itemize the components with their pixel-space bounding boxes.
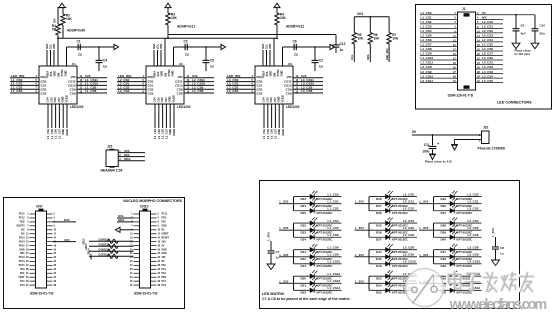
svg-text:1u: 1u bbox=[185, 53, 189, 57]
svg-text:L_3V3: L_3V3 bbox=[280, 279, 289, 283]
svg-text:GND: GND bbox=[19, 249, 24, 251]
svg-text:VLED: VLED bbox=[172, 129, 176, 136]
ground bbox=[512, 43, 520, 49]
svg-text:CS6: CS6 bbox=[53, 97, 57, 103]
svg-text:NC: NC bbox=[21, 233, 25, 235]
svg-text:L1_CS4: L1_CS4 bbox=[421, 29, 432, 33]
svg-text:L3_CS6: L3_CS6 bbox=[468, 233, 479, 237]
svg-text:PC13: PC13 bbox=[19, 257, 25, 259]
wire pin bbox=[30, 237, 36, 239]
svg-text:U1: U1 bbox=[72, 62, 76, 66]
svg-text:L1_CS5: L1_CS5 bbox=[328, 226, 339, 230]
svg-text:PH1: PH1 bbox=[20, 273, 25, 275]
wire bbox=[62, 25, 64, 38]
svg-text:C12: C12 bbox=[340, 42, 346, 46]
svg-text:PC2: PC2 bbox=[20, 281, 25, 283]
wire L2_CS0 bbox=[476, 23, 504, 25]
svg-text:NC: NC bbox=[21, 230, 25, 232]
wire L2_CS10 bbox=[420, 77, 458, 79]
capacitor C9 bbox=[515, 15, 517, 29]
svg-text:L1_CS10: L1_CS10 bbox=[328, 260, 341, 264]
svg-text:L2_CS2: L2_CS2 bbox=[403, 207, 414, 211]
LED D31 bbox=[434, 210, 482, 212]
svg-text:SSW-116-01-T-D: SSW-116-01-T-D bbox=[448, 94, 474, 98]
svg-text:Place close to J10: Place close to J10 bbox=[425, 160, 452, 164]
wire L3_CS11 bbox=[293, 81, 323, 83]
svg-text:L1_CS2: L1_CS2 bbox=[421, 20, 432, 24]
svg-text:L_3V3: L_3V3 bbox=[355, 226, 364, 230]
LED D51 bbox=[294, 282, 342, 284]
svg-text:L2_CS9: L2_CS9 bbox=[421, 70, 432, 74]
wire L1_CS9 bbox=[420, 54, 458, 56]
capacitor C2 bbox=[314, 47, 316, 60]
svg-text:L1_CS4: L1_CS4 bbox=[46, 128, 50, 138]
svg-text:L3_CS4: L3_CS4 bbox=[468, 219, 479, 223]
svg-text:KPT-2012EC: KPT-2012EC bbox=[317, 238, 333, 242]
wire pin bbox=[134, 253, 140, 255]
wire L3_CS9 bbox=[293, 88, 323, 90]
wire 5V0 bbox=[184, 77, 214, 79]
wire L_3V3 feed bbox=[419, 282, 434, 284]
wire L1_CS8 bbox=[420, 50, 458, 52]
svg-text:PA1: PA1 bbox=[162, 268, 167, 271]
svg-text:L1_CS8: L1_CS8 bbox=[421, 47, 432, 51]
svg-text:N/C: N/C bbox=[482, 16, 488, 20]
svg-text:PC10: PC10 bbox=[19, 214, 25, 216]
wire 5V0 branch bbox=[174, 46, 222, 48]
wire LED group bus bbox=[368, 250, 370, 264]
wire pin bbox=[30, 213, 36, 215]
svg-text:D35: D35 bbox=[376, 223, 382, 227]
wire L1_CS1 bbox=[10, 84, 39, 86]
svg-text:GND: GND bbox=[61, 96, 65, 102]
wire GND bbox=[278, 104, 280, 128]
wire L3_CS5 bbox=[476, 82, 504, 84]
svg-text:PC1: PC1 bbox=[162, 281, 167, 283]
svg-text:D48: D48 bbox=[441, 257, 447, 261]
svg-text:SCL: SCL bbox=[350, 54, 354, 60]
svg-text:L2_CS10: L2_CS10 bbox=[421, 74, 434, 78]
wire L_3V3 feed bbox=[355, 282, 370, 284]
svg-text:CS4: CS4 bbox=[46, 97, 50, 103]
svg-text:L_3V3: L_3V3 bbox=[420, 253, 429, 257]
svg-text:L_3V3: L_3V3 bbox=[280, 253, 289, 257]
wire pin bbox=[30, 225, 36, 227]
svg-text:VDD: VDD bbox=[269, 71, 273, 77]
svg-text:CS7: CS7 bbox=[57, 97, 61, 103]
svg-text:D31: D31 bbox=[441, 211, 447, 215]
svg-text:L_3V3: L_3V3 bbox=[355, 253, 364, 257]
svg-text:L1_CS7: L1_CS7 bbox=[421, 43, 432, 47]
svg-text:10K: 10K bbox=[66, 17, 73, 21]
wire bbox=[164, 38, 166, 66]
svg-text:GND: GND bbox=[61, 129, 65, 135]
wire E5V bbox=[53, 221, 77, 223]
wire 3V3 bbox=[53, 241, 77, 243]
svg-text:L1_CS5: L1_CS5 bbox=[50, 128, 54, 138]
LED D58 bbox=[434, 289, 482, 291]
wire L3_CS10 bbox=[293, 84, 323, 86]
svg-text:L2_CS0: L2_CS0 bbox=[403, 192, 414, 196]
wire L1_CS3 bbox=[420, 27, 458, 29]
wire SDA bbox=[118, 160, 145, 162]
box LED CONNECTORS bbox=[416, 5, 552, 110]
IC U3 LED1202 bbox=[255, 66, 293, 104]
wire N/C bbox=[476, 18, 504, 20]
svg-text:3V3: 3V3 bbox=[357, 12, 363, 16]
wire bbox=[266, 50, 268, 66]
svg-text:D52: D52 bbox=[301, 291, 307, 295]
svg-text:C3: C3 bbox=[184, 40, 188, 44]
svg-text:5V0: 5V0 bbox=[54, 18, 57, 23]
svg-text:D49: D49 bbox=[441, 264, 447, 268]
wire L2_CS9 bbox=[184, 88, 214, 90]
wire L1_CS11 bbox=[77, 81, 107, 83]
svg-text:L_3V3: L_3V3 bbox=[280, 226, 289, 230]
svg-text:PH0: PH0 bbox=[20, 269, 25, 271]
svg-text:PA15: PA15 bbox=[19, 244, 25, 247]
svg-text:GND: GND bbox=[280, 70, 284, 76]
IC U1 LED1202 bbox=[39, 66, 77, 104]
svg-text:KPT-2012EC: KPT-2012EC bbox=[392, 264, 408, 268]
wire bbox=[46, 50, 48, 66]
svg-text:PC3: PC3 bbox=[20, 285, 25, 287]
wire pin bbox=[134, 241, 140, 243]
wire L3_CS2 bbox=[476, 68, 504, 70]
svg-text:L1_CS6: L1_CS6 bbox=[54, 128, 58, 138]
svg-text:L1_CS13: L1_CS13 bbox=[328, 279, 341, 283]
svg-text:D29: D29 bbox=[441, 197, 447, 201]
svg-text:L1_CS14: L1_CS14 bbox=[328, 286, 341, 290]
wire L2_CS3 bbox=[117, 92, 146, 94]
LED D39 bbox=[434, 229, 482, 231]
svg-text:BOOT0: BOOT0 bbox=[17, 226, 26, 228]
wire VLED bbox=[173, 104, 175, 128]
wire SB12 bbox=[89, 240, 134, 242]
wire L3_CS4 bbox=[476, 77, 504, 79]
wire bbox=[160, 50, 162, 66]
svg-text:GND: GND bbox=[168, 129, 172, 135]
LED D35 bbox=[369, 222, 417, 224]
wire L1_CS7 bbox=[58, 104, 60, 128]
svg-text:KPT-2012EC: KPT-2012EC bbox=[457, 291, 473, 295]
wire L2_CS7 bbox=[476, 54, 504, 56]
connector CN7 SSW-19-01-T-D bbox=[36, 211, 47, 288]
svg-text:L2_CS10: L2_CS10 bbox=[403, 260, 416, 264]
wire SB15 bbox=[89, 255, 134, 257]
svg-text:L2_CS1: L2_CS1 bbox=[403, 199, 414, 203]
svg-text:VLED: VLED bbox=[172, 95, 176, 102]
wire SCL bbox=[117, 217, 134, 219]
connector J15 HEADER 2.54 bbox=[106, 150, 118, 167]
wire L_3V3 feed bbox=[355, 229, 370, 231]
wire pin bbox=[30, 233, 36, 235]
watermark text dian-zi-fa-shao-you bbox=[448, 271, 534, 292]
LED D47 bbox=[434, 249, 482, 251]
svg-text:VDD: VDD bbox=[160, 44, 163, 49]
wire bbox=[157, 50, 159, 66]
capacitor C10 bbox=[534, 15, 536, 29]
wire L1_CS11 bbox=[420, 64, 458, 66]
svg-text:L1_CS11: L1_CS11 bbox=[421, 61, 434, 65]
wire pin bbox=[30, 229, 36, 231]
LED D54 bbox=[369, 282, 417, 284]
wire pin bbox=[134, 268, 140, 270]
svg-text:L1_CS6: L1_CS6 bbox=[328, 233, 339, 237]
wire bbox=[53, 50, 55, 66]
svg-text:GND: GND bbox=[277, 129, 281, 135]
capacitor C5 bbox=[205, 47, 207, 60]
wire bbox=[269, 50, 271, 66]
svg-text:CS5: CS5 bbox=[49, 97, 53, 103]
svg-text:L3_CS10: L3_CS10 bbox=[468, 260, 481, 264]
wire L2_CS2 bbox=[476, 32, 504, 34]
LED D30 bbox=[434, 203, 482, 205]
svg-text:D46: D46 bbox=[376, 264, 382, 268]
svg-text:L2_CS6: L2_CS6 bbox=[403, 233, 414, 237]
svg-text:L3_CS2: L3_CS2 bbox=[482, 65, 493, 69]
svg-text:SCL: SCL bbox=[156, 71, 160, 77]
svg-text:D41: D41 bbox=[301, 250, 307, 254]
svg-text:D50: D50 bbox=[301, 276, 307, 280]
svg-text:KPT-2012EC: KPT-2012EC bbox=[392, 238, 408, 242]
svg-text:PC0: PC0 bbox=[162, 285, 167, 287]
svg-text:C2: C2 bbox=[319, 59, 323, 63]
svg-text:GND: GND bbox=[162, 253, 167, 255]
svg-text:L1_CS1: L1_CS1 bbox=[328, 199, 339, 203]
connector arrow bbox=[114, 44, 119, 49]
svg-text:ADDR=0x00: ADDR=0x00 bbox=[67, 29, 85, 33]
svg-text:LED1202: LED1202 bbox=[177, 105, 191, 109]
wire L2_CS5 bbox=[158, 104, 160, 128]
wire LED_IRQ bbox=[226, 77, 255, 79]
LED D25 bbox=[294, 210, 342, 212]
wire pin bbox=[30, 249, 36, 251]
svg-text:L1_CS9: L1_CS9 bbox=[421, 52, 432, 56]
svg-text:L3_CS5: L3_CS5 bbox=[266, 128, 270, 138]
svg-text:ADDR=0x11: ADDR=0x11 bbox=[177, 25, 195, 29]
wire L3_CS0 bbox=[226, 81, 255, 83]
wire LED group bus bbox=[433, 276, 435, 290]
svg-text:L3_CS6: L3_CS6 bbox=[270, 128, 274, 138]
svg-text:L1_CS2: L1_CS2 bbox=[328, 207, 339, 211]
wire 5V bbox=[476, 14, 536, 16]
wire L3_CS2 bbox=[226, 88, 255, 90]
svg-text:GND: GND bbox=[277, 96, 281, 102]
wire bbox=[262, 50, 264, 66]
wire bbox=[57, 35, 59, 66]
LED D46 bbox=[369, 263, 417, 265]
svg-text:D34: D34 bbox=[301, 237, 307, 241]
capacitor C3 bbox=[184, 44, 186, 50]
LED D40 bbox=[434, 236, 482, 238]
svg-text:PC12: PC12 bbox=[19, 218, 25, 220]
svg-text:SDA: SDA bbox=[118, 218, 125, 222]
LED D50 bbox=[294, 275, 342, 277]
svg-text:VDD: VDD bbox=[269, 44, 272, 49]
svg-text:LED MATRIX: LED MATRIX bbox=[262, 292, 285, 296]
LED D36 bbox=[369, 229, 417, 231]
svg-text:KPT-2012EC: KPT-2012EC bbox=[457, 238, 473, 242]
svg-text:L2_CS4: L2_CS4 bbox=[403, 219, 414, 223]
svg-text:SDA: SDA bbox=[46, 71, 50, 77]
wire L1_CS10 bbox=[420, 59, 458, 61]
svg-text:5V: 5V bbox=[162, 245, 165, 247]
svg-text:KPT-2012EC: KPT-2012EC bbox=[392, 211, 408, 215]
connector J1 SSW-116-01-T-D bbox=[458, 12, 476, 90]
svg-text:E5V: E5V bbox=[64, 218, 71, 222]
svg-text:PB7: PB7 bbox=[20, 253, 25, 255]
svg-text:L2_CS5: L2_CS5 bbox=[403, 226, 414, 230]
svg-text:D30: D30 bbox=[441, 204, 447, 208]
wire LED_IRQ bbox=[10, 77, 39, 79]
svg-text:10K: 10K bbox=[374, 37, 381, 41]
wire pin bbox=[134, 233, 140, 235]
connector arrow bbox=[330, 44, 335, 49]
wire L1_CS5 bbox=[420, 36, 458, 38]
svg-text:L1_CS12: L1_CS12 bbox=[328, 272, 341, 276]
wire L1_CS8 bbox=[77, 92, 107, 94]
LED D55 bbox=[369, 289, 417, 291]
wire 5V0 branch bbox=[283, 46, 331, 48]
svg-text:SSW-19-01-T-D: SSW-19-01-T-D bbox=[30, 292, 54, 296]
svg-text:L1_CS8: L1_CS8 bbox=[85, 89, 97, 93]
wire SB13 bbox=[89, 245, 134, 247]
wire pin bbox=[134, 284, 140, 286]
svg-text:L2_CS4: L2_CS4 bbox=[482, 38, 493, 42]
svg-text:0R: 0R bbox=[52, 28, 57, 32]
LED D44 bbox=[369, 249, 417, 251]
svg-text:D26: D26 bbox=[376, 197, 382, 201]
wire L1_CS5 bbox=[51, 104, 53, 128]
wire GND bbox=[169, 104, 171, 128]
svg-text:SYNC: SYNC bbox=[167, 69, 171, 77]
wire L2_CS6 bbox=[476, 50, 504, 52]
wire LED group bus bbox=[293, 223, 295, 237]
wire LED_IRQ bbox=[388, 44, 390, 62]
svg-text:VLED: VLED bbox=[65, 95, 69, 102]
wire L1_CS2 bbox=[10, 88, 39, 90]
svg-text:VDD: VDD bbox=[53, 44, 56, 49]
svg-text:3V3: 3V3 bbox=[162, 241, 167, 243]
wire L2_CS2 bbox=[117, 88, 146, 90]
svg-text:L2_CS8: L2_CS8 bbox=[192, 89, 204, 93]
wire L3_CS1 bbox=[226, 84, 255, 86]
svg-text:D23: D23 bbox=[301, 197, 307, 201]
svg-text:C6: C6 bbox=[293, 40, 297, 44]
svg-text:1u: 1u bbox=[340, 48, 344, 52]
LED D53 bbox=[369, 275, 417, 277]
svg-text:D39: D39 bbox=[441, 230, 447, 234]
svg-text:10K: 10K bbox=[358, 37, 365, 41]
svg-text:D54: D54 bbox=[376, 283, 382, 287]
wire L3_CS6 bbox=[271, 104, 273, 128]
svg-text:D36: D36 bbox=[376, 230, 382, 234]
LED D42 bbox=[294, 256, 342, 258]
svg-text:L_3V3: L_3V3 bbox=[355, 279, 364, 283]
LED D28 bbox=[369, 210, 417, 212]
wire L2_CS3 bbox=[476, 36, 504, 38]
wire SCL bbox=[118, 156, 145, 158]
svg-text:EN: EN bbox=[163, 73, 167, 77]
svg-text:L1_CS5: L1_CS5 bbox=[421, 34, 432, 38]
svg-text:GND: GND bbox=[171, 70, 175, 76]
ground bbox=[531, 43, 539, 49]
svg-text:CS8: CS8 bbox=[286, 92, 292, 96]
wire L1_CS6 bbox=[55, 104, 57, 128]
wire bbox=[57, 8, 59, 25]
wire L1_CS6 bbox=[420, 41, 458, 43]
wire bus 3V3 top bbox=[168, 34, 336, 36]
svg-text:CN7: CN7 bbox=[36, 205, 43, 209]
ground arrow bbox=[492, 260, 500, 266]
LED D48 bbox=[434, 256, 482, 258]
wire L2_CS0 bbox=[117, 81, 146, 83]
wire pin bbox=[30, 272, 36, 274]
wire L2_CS11 bbox=[184, 81, 214, 83]
wire 3V3 bbox=[354, 16, 389, 18]
connector CN10 SSW-19-01-T-D bbox=[140, 211, 151, 288]
svg-text:C1: C1 bbox=[77, 40, 81, 44]
svg-text:PA13: PA13 bbox=[19, 236, 25, 239]
wire L_3V3 feed bbox=[279, 282, 294, 284]
svg-text:L_3V3: L_3V3 bbox=[420, 226, 429, 230]
svg-text:1u: 1u bbox=[319, 65, 323, 69]
wire 3V3 bbox=[118, 152, 145, 154]
wire 5V0 bbox=[293, 77, 323, 79]
svg-text:www.elecfans.com: www.elecfans.com bbox=[449, 297, 547, 313]
resistor R5 bbox=[353, 17, 355, 33]
LED D29 bbox=[434, 196, 482, 198]
svg-text:L3_CS8: L3_CS8 bbox=[468, 246, 479, 250]
svg-text:3V3: 3V3 bbox=[64, 238, 70, 242]
wire pin bbox=[30, 268, 36, 270]
svg-text:ADDR=0x12: ADDR=0x12 bbox=[286, 25, 304, 29]
power symbol 5V0 (U1 pullups) bbox=[59, 3, 65, 8]
svg-text:SCL: SCL bbox=[49, 71, 53, 77]
svg-text:CS7: CS7 bbox=[164, 97, 168, 103]
LED D23 bbox=[294, 196, 342, 198]
wire L_3V3 feed bbox=[419, 256, 434, 258]
svg-text:VDD: VDD bbox=[160, 71, 164, 77]
svg-text:CS5: CS5 bbox=[156, 97, 160, 103]
svg-text:C10: C10 bbox=[540, 24, 546, 28]
svg-text:D47: D47 bbox=[441, 250, 447, 254]
wire L3_CS8 bbox=[293, 92, 323, 94]
wire LED group bus bbox=[368, 276, 370, 290]
svg-text:L1_CS1: L1_CS1 bbox=[421, 16, 432, 20]
svg-text:L1_CS7: L1_CS7 bbox=[57, 128, 61, 138]
svg-text:L3_CS2: L3_CS2 bbox=[468, 207, 479, 211]
wire LED group bus bbox=[433, 197, 435, 211]
wire pin bbox=[30, 217, 36, 219]
svg-text:L2_CS8: L2_CS8 bbox=[403, 246, 414, 250]
power symbol 5V0 (U3 pullup) bbox=[274, 3, 280, 8]
wire LED_IRQ bbox=[117, 77, 146, 79]
wire pin bbox=[134, 217, 140, 219]
svg-text:SDA: SDA bbox=[153, 71, 157, 77]
wire 5V bbox=[412, 134, 482, 136]
wire bus 5V0 top bbox=[58, 37, 277, 39]
svg-text:D32: D32 bbox=[301, 223, 307, 227]
LED D52 bbox=[294, 289, 342, 291]
wire L1_CS2 bbox=[420, 23, 458, 25]
wire L1_CS3 bbox=[10, 92, 39, 94]
IC U2 LED1202 bbox=[146, 66, 184, 104]
svg-text:CN10: CN10 bbox=[140, 205, 149, 209]
svg-text:L1_CS8: L1_CS8 bbox=[328, 246, 339, 250]
LED D32 bbox=[294, 222, 342, 224]
